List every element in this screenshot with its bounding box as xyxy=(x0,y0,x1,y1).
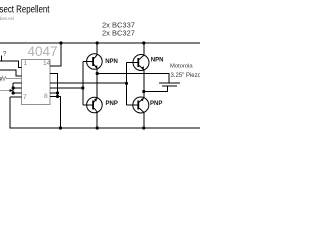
svg-text:PNP: PNP xyxy=(106,101,118,107)
svg-text:7: 7 xyxy=(23,94,27,101)
svg-text:ben.net: ben.net xyxy=(0,16,15,21)
svg-text:2x BC327: 2x BC327 xyxy=(102,29,135,38)
svg-text:sect Repellent: sect Repellent xyxy=(0,5,50,16)
svg-text:8: 8 xyxy=(44,93,48,100)
svg-text:Motorola: Motorola xyxy=(170,64,193,70)
svg-text:NPN: NPN xyxy=(105,59,118,65)
svg-text:PNP: PNP xyxy=(150,101,162,107)
svg-text:1: 1 xyxy=(24,60,28,67)
svg-text:NPN: NPN xyxy=(151,58,164,64)
svg-text:14: 14 xyxy=(43,60,51,67)
svg-text:3.25" Piezo: 3.25" Piezo xyxy=(171,73,201,79)
svg-text:4047: 4047 xyxy=(28,44,58,59)
